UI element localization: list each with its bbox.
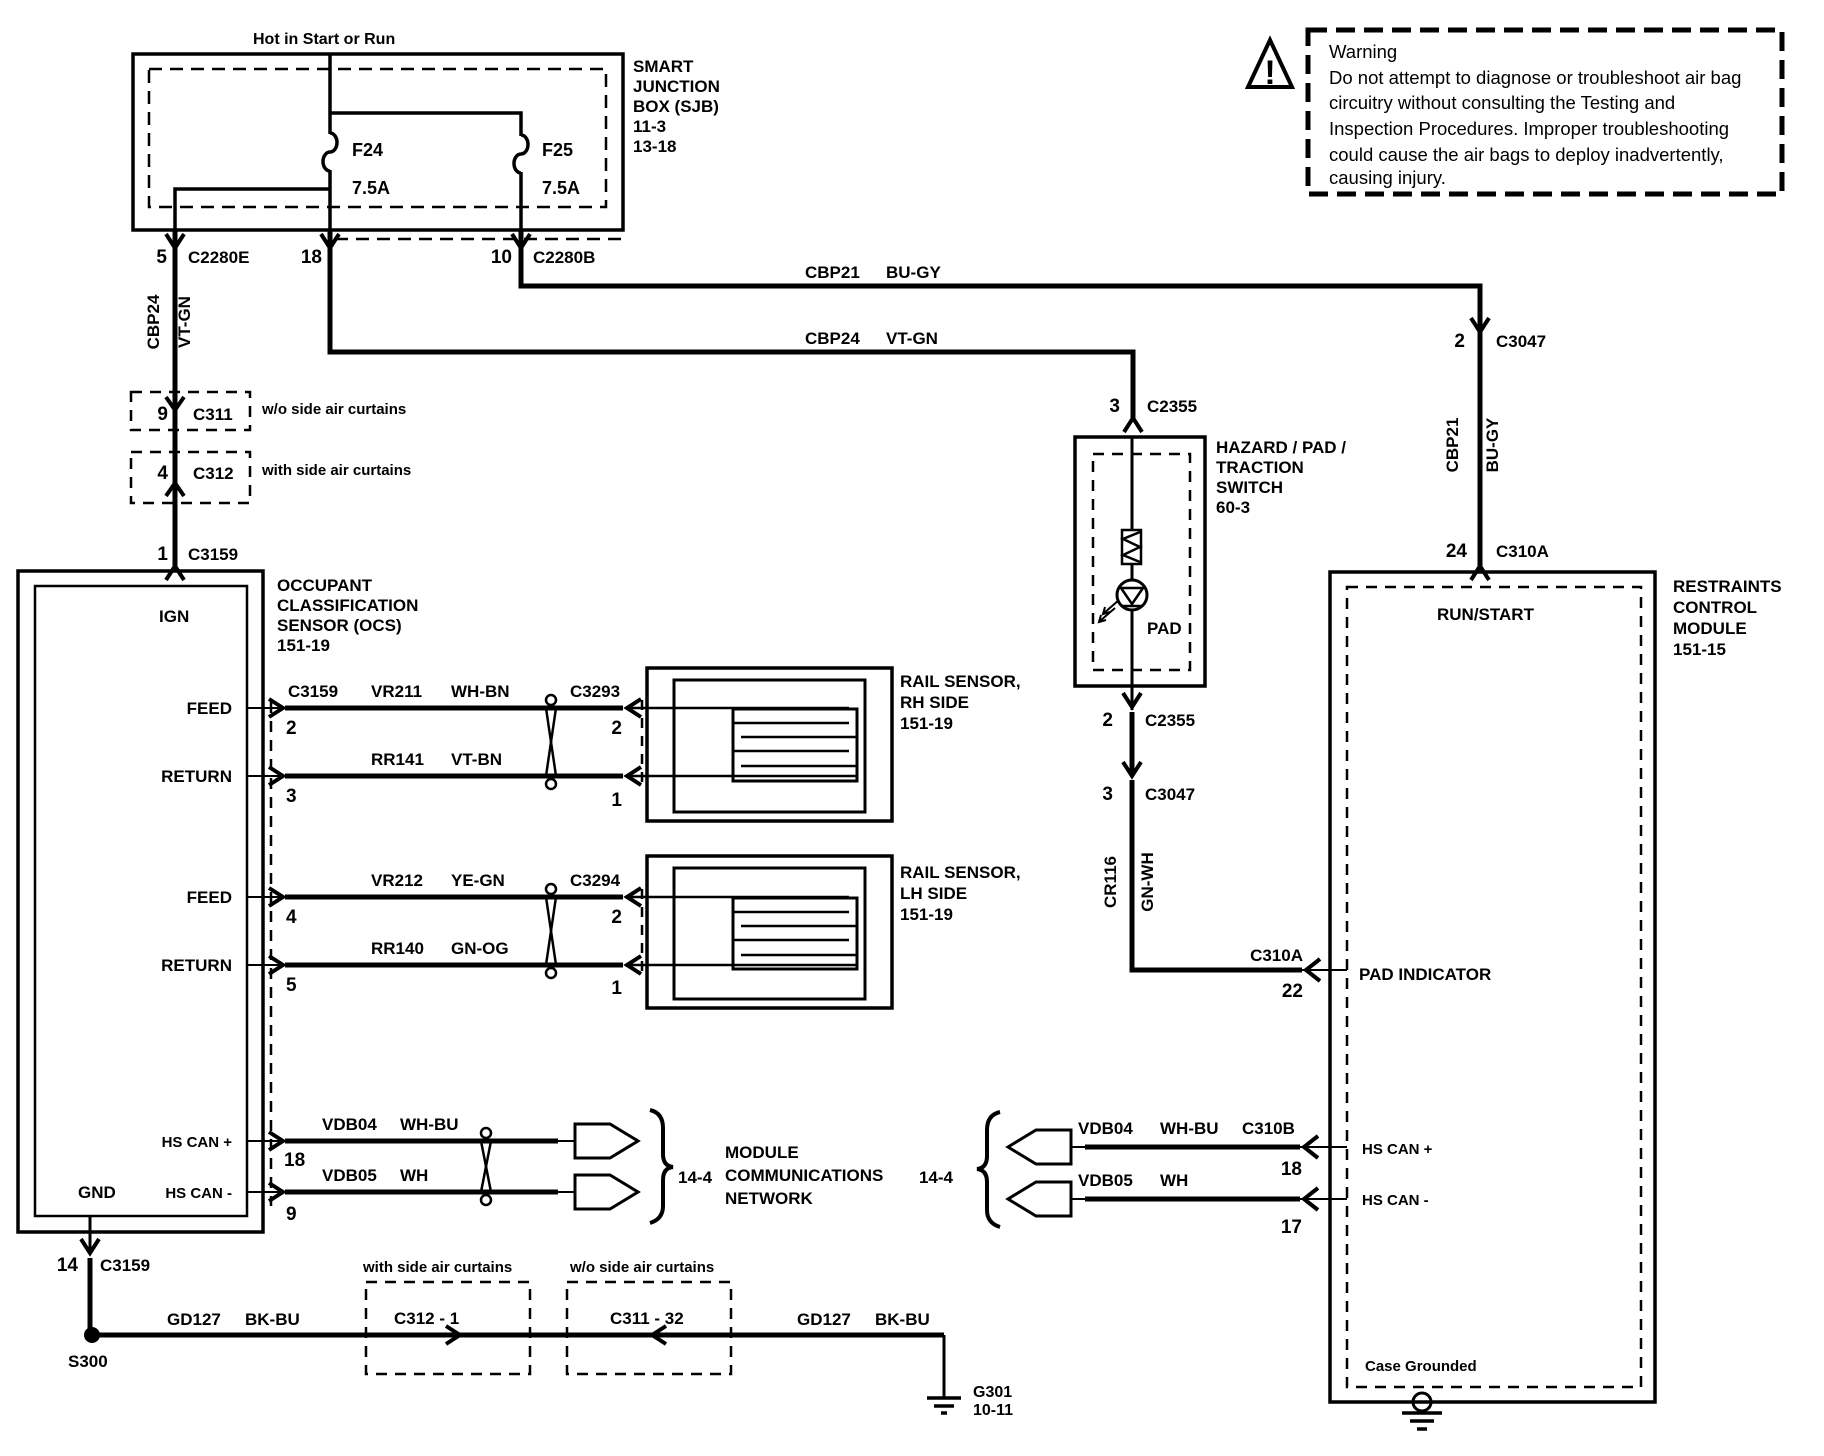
svg-text:WH-BU: WH-BU [400, 1115, 459, 1134]
svg-text:13-18: 13-18 [633, 137, 676, 156]
svg-text:VT-GN: VT-GN [886, 329, 938, 348]
rail sensor LH side box [627, 856, 892, 1008]
twisted pair symbol C3294 [546, 871, 621, 978]
svg-text:C2280E: C2280E [188, 248, 249, 267]
svg-text:5: 5 [286, 975, 297, 996]
svg-text:with side air curtains: with side air curtains [362, 1259, 512, 1276]
splice S300 [68, 1327, 108, 1371]
svg-text:C3159: C3159 [188, 545, 238, 564]
pin RETURN 5 lead [161, 956, 297, 996]
connector pin 24 C310A arrow into RCM [1446, 541, 1549, 580]
svg-text:151-15: 151-15 [1673, 640, 1726, 659]
svg-text:11-3: 11-3 [633, 117, 666, 136]
svg-text:JUNCTION: JUNCTION [633, 77, 720, 96]
svg-text:3: 3 [1102, 784, 1113, 805]
svg-text:3: 3 [286, 786, 297, 807]
svg-text:RETURN: RETURN [161, 767, 232, 786]
hazard switch inner dashed box [1093, 454, 1190, 670]
svg-text:VDB05: VDB05 [322, 1166, 377, 1185]
restraints control module RCM outer box [1330, 572, 1655, 1402]
svg-text:C310B: C310B [1242, 1119, 1295, 1138]
wire RR141 VT-BN [285, 750, 623, 776]
svg-text:9: 9 [157, 404, 168, 425]
wire GD127 BK-BU right segment to G301 [652, 1310, 944, 1398]
connector pin 3 C2355 arrow into hazard switch [1109, 396, 1197, 432]
svg-text:4: 4 [157, 463, 168, 484]
svg-text:!: ! [1264, 54, 1275, 92]
svg-text:10-11: 10-11 [973, 1402, 1013, 1419]
label Hot in Start or Run [253, 31, 395, 48]
twisted pair symbol HS CAN [481, 1128, 491, 1205]
svg-text:Inspection Procedures. Imprope: Inspection Procedures. Improper troubles… [1329, 118, 1729, 139]
pin label HS CAN - [1362, 1192, 1429, 1209]
pin label HS CAN + [1362, 1141, 1433, 1158]
pin label PAD INDICATOR [1359, 965, 1491, 984]
pin FEED 4 lead [187, 888, 297, 928]
connector C311-32 dashed box w/o side air curtains [567, 1259, 731, 1374]
OCS inner box [35, 586, 247, 1216]
connector pin 2 C3047 arrow [1454, 318, 1546, 352]
occupant classification sensor OCS outer box [18, 571, 263, 1232]
svg-text:RESTRAINTS: RESTRAINTS [1673, 577, 1782, 596]
svg-text:7.5A: 7.5A [352, 178, 390, 198]
svg-text:18: 18 [284, 1150, 305, 1171]
svg-text:BOX (SJB): BOX (SJB) [633, 97, 719, 116]
svg-text:Do not attempt to diagnose or: Do not attempt to diagnose or troublesho… [1329, 67, 1741, 88]
svg-text:RH SIDE: RH SIDE [900, 693, 969, 712]
svg-text:CLASSIFICATION: CLASSIFICATION [277, 596, 418, 615]
svg-text:14: 14 [57, 1255, 79, 1276]
svg-text:could cause the air bags to de: could cause the air bags to deploy inadv… [1329, 144, 1724, 165]
svg-text:7.5A: 7.5A [542, 178, 580, 198]
svg-text:151-19: 151-19 [900, 905, 953, 924]
hazard pad traction switch outer box [1075, 437, 1205, 686]
svg-text:HS CAN -: HS CAN - [165, 1185, 232, 1202]
ground G301 [927, 1384, 1013, 1419]
wire VDB05 WH to RCM [1071, 1171, 1347, 1238]
label OCCUPANT CLASSIFICATION SENSOR (OCS) [277, 576, 418, 655]
svg-text:RR141: RR141 [371, 750, 424, 769]
svg-text:18: 18 [1281, 1159, 1302, 1180]
svg-text:Warning: Warning [1329, 41, 1397, 62]
svg-text:C3047: C3047 [1145, 785, 1195, 804]
svg-text:IGN: IGN [159, 607, 189, 626]
svg-text:Case Grounded: Case Grounded [1365, 1358, 1477, 1375]
resistor in hazard switch [1122, 530, 1141, 564]
svg-text:C311 - 32: C311 - 32 [610, 1309, 684, 1328]
svg-text:2: 2 [611, 718, 622, 739]
wire OCS GND to S300 [57, 1216, 150, 1335]
svg-text:CR116: CR116 [1101, 856, 1120, 908]
svg-text:LH SIDE: LH SIDE [900, 884, 967, 903]
svg-text:WH-BU: WH-BU [1160, 1119, 1219, 1138]
svg-text:HS CAN +: HS CAN + [1362, 1141, 1433, 1158]
svg-text:C310A: C310A [1250, 946, 1303, 965]
fuse F24 7.5A [323, 133, 390, 198]
svg-text:GD127: GD127 [797, 1310, 851, 1329]
svg-text:CBP24: CBP24 [805, 329, 860, 348]
svg-text:MODULE: MODULE [725, 1143, 799, 1162]
wire between connectors [1130, 712, 1135, 776]
wire inside hazard switch [1131, 437, 1134, 530]
RCM case ground symbol [1402, 1393, 1442, 1429]
connector pin 18 arrow [301, 234, 339, 268]
connector pin 22 C310A arrow at RCM [1250, 946, 1347, 1002]
svg-text:WH: WH [1160, 1171, 1188, 1190]
svg-text:MODULE: MODULE [1673, 619, 1747, 638]
svg-text:GD127: GD127 [167, 1310, 221, 1329]
svg-text:FEED: FEED [187, 888, 232, 907]
label RAIL SENSOR LH SIDE [900, 863, 1021, 924]
connector pin 1 C3159 arrow into OCS [157, 544, 238, 580]
svg-text:CBP21: CBP21 [1443, 418, 1462, 473]
svg-text:VT-GN: VT-GN [175, 296, 194, 348]
svg-text:G301: G301 [973, 1384, 1012, 1401]
brace left 14-4 [650, 1110, 713, 1223]
rail sensor RH side box [627, 668, 892, 821]
svg-text:2: 2 [1454, 331, 1465, 352]
connector pin 2 C2355 arrow [1102, 693, 1195, 731]
wire branch to F25 [330, 113, 521, 136]
wire F25 output [519, 172, 523, 230]
svg-text:2: 2 [286, 718, 297, 739]
svg-text:2: 2 [611, 907, 622, 928]
svg-text:NETWORK: NETWORK [725, 1189, 814, 1208]
connector pin 3 C3047 arrow [1102, 762, 1195, 805]
svg-text:COMMUNICATIONS: COMMUNICATIONS [725, 1166, 883, 1185]
fuse F25 7.5A [514, 135, 580, 198]
svg-text:SWITCH: SWITCH [1216, 478, 1283, 497]
wire GD127 BK-BU left segment [92, 1310, 460, 1335]
pin RETURN 3 lead [161, 767, 296, 807]
svg-text:3: 3 [1109, 396, 1120, 417]
svg-text:causing injury.: causing injury. [1329, 167, 1446, 188]
wire lamp to bottom of switch [1131, 610, 1134, 710]
connector C311 dashed box w/o side air curtains [131, 392, 406, 430]
svg-text:RAIL SENSOR,: RAIL SENSOR, [900, 672, 1021, 691]
svg-text:2: 2 [1102, 710, 1113, 731]
svg-text:C3294: C3294 [570, 871, 621, 890]
wire resistor to lamp [1131, 564, 1134, 580]
RCM inner dashed box [1347, 587, 1641, 1387]
wire between C312 and C311 [460, 1333, 656, 1338]
svg-text:C2355: C2355 [1145, 711, 1195, 730]
wire feed into SJB [328, 54, 332, 134]
svg-text:18: 18 [301, 247, 322, 268]
wire VDB04 WH-BU [285, 1115, 575, 1141]
wire VDB05 WH [285, 1166, 575, 1192]
label SMART JUNCTION BOX (SJB) [633, 57, 720, 156]
pin label IGN [159, 607, 189, 626]
off-page connector VDB05 right [1008, 1182, 1071, 1216]
svg-text:RAIL SENSOR,: RAIL SENSOR, [900, 863, 1021, 882]
svg-text:C2355: C2355 [1147, 397, 1197, 416]
pin HS CAN + 18 lead [162, 1132, 306, 1171]
wire CBP24 VT-GN horizontal run from pin 18 [330, 230, 1133, 420]
svg-text:with side air curtains: with side air curtains [261, 462, 411, 479]
svg-text:CBP24: CBP24 [144, 294, 163, 349]
svg-text:151-19: 151-19 [900, 714, 953, 733]
svg-text:9: 9 [286, 1204, 297, 1225]
svg-text:RR140: RR140 [371, 939, 424, 958]
svg-text:HS CAN +: HS CAN + [162, 1134, 233, 1151]
svg-text:S300: S300 [68, 1352, 108, 1371]
svg-text:22: 22 [1282, 981, 1303, 1002]
warning dashed box [1308, 30, 1782, 194]
svg-text:C3047: C3047 [1496, 332, 1546, 351]
svg-text:C3159: C3159 [100, 1256, 150, 1275]
label HAZARD PAD TRACTION SWITCH [1216, 438, 1346, 517]
svg-text:1: 1 [611, 790, 622, 811]
smart junction box SJB outer box [133, 54, 623, 230]
svg-text:HS CAN -: HS CAN - [1362, 1192, 1429, 1209]
wire F24 output [328, 170, 332, 230]
svg-text:VR212: VR212 [371, 871, 423, 890]
svg-text:circuitry without consulting t: circuitry without consulting the Testing… [1329, 92, 1675, 113]
wire VDB04 WH-BU to RCM [1071, 1119, 1347, 1180]
svg-text:10: 10 [491, 247, 512, 268]
label RESTRAINTS CONTROL MODULE [1673, 577, 1782, 659]
warning triangle icon [1248, 40, 1292, 92]
twisted pair symbol C3293 [546, 682, 620, 789]
svg-text:Hot in Start or Run: Hot in Start or Run [253, 31, 395, 48]
svg-text:1: 1 [157, 544, 168, 565]
svg-text:5: 5 [156, 247, 167, 268]
svg-text:VDB05: VDB05 [1078, 1171, 1133, 1190]
svg-text:FEED: FEED [187, 699, 232, 718]
svg-text:C3293: C3293 [570, 682, 620, 701]
svg-text:YE-GN: YE-GN [451, 871, 505, 890]
svg-text:C2280B: C2280B [533, 248, 595, 267]
OCS connector dashed line C3159 [270, 702, 273, 1206]
wire CBP21 BU-GY down to RCM [1443, 330, 1502, 566]
svg-text:OCCUPANT: OCCUPANT [277, 576, 373, 595]
label Case Grounded [1365, 1358, 1477, 1375]
svg-text:SMART: SMART [633, 57, 694, 76]
PAD indicator lamp LED [1099, 580, 1182, 638]
svg-text:C312: C312 [193, 464, 234, 483]
svg-text:14-4: 14-4 [678, 1168, 713, 1187]
off-page connector VDB04 [575, 1124, 638, 1158]
wire RR140 GN-OG [285, 939, 623, 965]
label RAIL SENSOR RH SIDE [900, 672, 1021, 733]
connector C312-1 dashed box with side air curtains [362, 1259, 530, 1374]
wire CBP24 VT-GN from pin 5 down to OCS [144, 230, 194, 566]
svg-text:BU-GY: BU-GY [886, 263, 941, 282]
svg-text:PAD INDICATOR: PAD INDICATOR [1359, 965, 1491, 984]
svg-text:C3159: C3159 [288, 682, 338, 701]
svg-text:VT-BN: VT-BN [451, 750, 502, 769]
svg-text:PAD: PAD [1147, 619, 1182, 638]
svg-text:SENSOR (OCS): SENSOR (OCS) [277, 616, 402, 635]
connector C312 dashed box with side air curtains [131, 452, 411, 503]
svg-text:CBP21: CBP21 [805, 263, 860, 282]
svg-text:TRACTION: TRACTION [1216, 458, 1304, 477]
svg-text:C312 - 1: C312 - 1 [394, 1309, 459, 1328]
connector pin 10 C2280B arrow [491, 234, 596, 268]
wire VR212 YE-GN [285, 871, 623, 897]
svg-text:C310A: C310A [1496, 542, 1549, 561]
svg-text:14-4: 14-4 [919, 1168, 954, 1187]
svg-text:24: 24 [1446, 541, 1468, 562]
svg-text:w/o side air curtains: w/o side air curtains [261, 401, 406, 418]
label MODULE COMMUNICATIONS NETWORK [725, 1143, 883, 1208]
svg-text:WH: WH [400, 1166, 428, 1185]
svg-text:VDB04: VDB04 [1078, 1119, 1133, 1138]
pin label RUN/START [1437, 605, 1535, 624]
svg-text:F24: F24 [352, 140, 383, 160]
svg-text:4: 4 [286, 907, 297, 928]
svg-text:RETURN: RETURN [161, 956, 232, 975]
svg-text:151-19: 151-19 [277, 636, 330, 655]
svg-text:F25: F25 [542, 140, 573, 160]
svg-text:C311: C311 [193, 405, 233, 424]
svg-text:GN-WH: GN-WH [1138, 852, 1157, 911]
svg-text:GND: GND [78, 1183, 116, 1202]
svg-text:VDB04: VDB04 [322, 1115, 377, 1134]
svg-text:BU-GY: BU-GY [1483, 417, 1502, 472]
off-page connector VDB05 [575, 1175, 638, 1209]
wire VR211 WH-BN [285, 682, 623, 708]
pin HS CAN - 9 lead and GND label [78, 1183, 297, 1225]
connector pin 5 C2280E arrow [156, 234, 249, 268]
svg-text:CONTROL: CONTROL [1673, 598, 1757, 617]
wire CR116 GN-WH to RCM pad indicator [1101, 780, 1302, 970]
off-page connector VDB04 right [1008, 1130, 1071, 1164]
svg-text:RUN/START: RUN/START [1437, 605, 1535, 624]
svg-text:HAZARD / PAD /: HAZARD / PAD / [1216, 438, 1346, 457]
svg-text:BK-BU: BK-BU [875, 1310, 930, 1329]
svg-text:WH-BN: WH-BN [451, 682, 510, 701]
wire branch to pin 5 [175, 189, 330, 230]
rail sensor LH connector arrows [611, 888, 642, 999]
svg-text:VR211: VR211 [371, 682, 422, 701]
svg-text:w/o side air curtains: w/o side air curtains [569, 1259, 714, 1276]
svg-text:GN-OG: GN-OG [451, 939, 509, 958]
smart junction box inner dashed boundary [149, 69, 621, 239]
rail sensor RH connector arrows [611, 699, 642, 811]
svg-text:17: 17 [1281, 1217, 1302, 1238]
pin FEED 2 lead [187, 699, 297, 739]
svg-text:BK-BU: BK-BU [245, 1310, 300, 1329]
brace right 14-4 [919, 1112, 1000, 1227]
wire CBP21 BU-GY horizontal run from pin 10 [521, 230, 1480, 330]
warning text [1329, 41, 1741, 188]
svg-text:60-3: 60-3 [1216, 498, 1250, 517]
svg-text:1: 1 [611, 978, 622, 999]
